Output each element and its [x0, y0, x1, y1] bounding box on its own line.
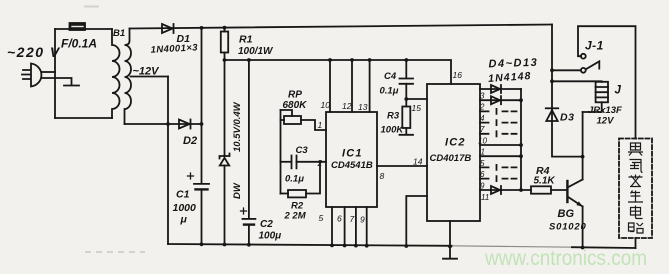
svg-text:6: 6: [480, 170, 485, 179]
svg-text:RP: RP: [288, 90, 302, 101]
svg-text:F/0.1A: F/0.1A: [61, 37, 97, 51]
svg-text:10: 10: [478, 137, 487, 146]
svg-text:D2: D2: [183, 135, 197, 147]
svg-text:0.1μ: 0.1μ: [380, 86, 399, 97]
svg-text:C1: C1: [176, 189, 190, 201]
svg-text:B1: B1: [113, 28, 125, 39]
svg-text:IC1: IC1: [342, 148, 363, 160]
svg-text:2: 2: [317, 158, 323, 168]
svg-text:1000: 1000: [173, 202, 197, 214]
svg-text:IC2: IC2: [445, 137, 466, 149]
svg-text:9: 9: [360, 215, 365, 225]
svg-text:D3: D3: [560, 112, 574, 124]
svg-text:10.5V/0.4W: 10.5V/0.4W: [232, 101, 243, 152]
svg-text:0.1μ: 0.1μ: [285, 174, 304, 185]
svg-text:11: 11: [481, 193, 489, 202]
svg-text:J: J: [615, 85, 622, 97]
svg-text:J-1: J-1: [585, 39, 604, 53]
svg-text:100K: 100K: [381, 125, 405, 136]
svg-text:1: 1: [481, 148, 485, 157]
svg-text:680K: 680K: [283, 100, 308, 111]
svg-text:D4~D13: D4~D13: [488, 57, 538, 71]
svg-text:100μ: 100μ: [259, 231, 282, 242]
svg-text:C3: C3: [296, 145, 309, 156]
svg-text:6: 6: [337, 214, 342, 224]
svg-text:12: 12: [342, 101, 352, 111]
svg-text:12V: 12V: [597, 116, 615, 127]
svg-text:7: 7: [480, 125, 485, 134]
svg-text:www.cntronics.com: www.cntronics.com: [484, 247, 647, 270]
svg-text:5: 5: [319, 213, 324, 223]
svg-text:DW: DW: [232, 182, 243, 199]
svg-text:~12V: ~12V: [133, 66, 161, 78]
svg-text:CD4541B: CD4541B: [331, 160, 373, 171]
svg-text:1: 1: [318, 120, 323, 130]
svg-text:8: 8: [380, 171, 385, 181]
svg-text:C2: C2: [260, 219, 273, 230]
svg-text:S01020: S01020: [549, 222, 587, 233]
svg-text:4: 4: [480, 114, 485, 123]
svg-text:~220 V: ~220 V: [7, 44, 61, 60]
svg-text:5.1K: 5.1K: [534, 176, 556, 187]
svg-text:BG: BG: [558, 208, 575, 220]
svg-text:16: 16: [453, 70, 463, 80]
svg-text:CD4017B: CD4017B: [430, 153, 472, 164]
svg-text:15: 15: [412, 103, 422, 113]
svg-text:2 2M: 2 2M: [284, 211, 307, 222]
svg-text:C4: C4: [384, 71, 397, 82]
svg-text:10: 10: [321, 100, 331, 110]
svg-text:7: 7: [350, 214, 355, 224]
svg-text:3: 3: [480, 92, 485, 101]
svg-text:9: 9: [480, 182, 485, 191]
svg-text:100/1W: 100/1W: [238, 46, 274, 57]
svg-text:14: 14: [413, 157, 423, 167]
svg-text:R3: R3: [387, 111, 400, 122]
svg-text:R1: R1: [239, 34, 253, 46]
svg-text:μ: μ: [180, 214, 188, 226]
svg-text:13: 13: [358, 102, 368, 112]
svg-text:2: 2: [479, 103, 485, 112]
svg-text:5: 5: [480, 159, 485, 168]
svg-text:JRx13F: JRx13F: [588, 105, 622, 116]
